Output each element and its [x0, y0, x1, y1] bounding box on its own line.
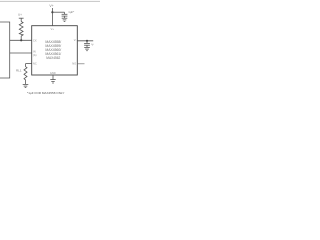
svg-text:NC: NC	[33, 62, 37, 66]
svg-text:V-: V-	[74, 38, 77, 42]
svg-text:*1µF FOR MAX4558 ONLY: *1µF FOR MAX4558 ONLY	[27, 91, 65, 95]
svg-text:RL1: RL1	[16, 68, 22, 72]
svg-text:1µF*: 1µF*	[68, 10, 75, 14]
svg-text:MAX4562: MAX4562	[46, 56, 60, 60]
svg-text:CX: CX	[33, 39, 37, 43]
svg-text:V-: V-	[91, 43, 94, 47]
svg-text:V+: V+	[49, 4, 53, 8]
svg-text:(A): (A)	[33, 53, 37, 57]
svg-text:V+: V+	[18, 13, 22, 17]
svg-text:GND: GND	[50, 71, 56, 75]
svg-text:V+: V+	[51, 27, 55, 31]
svg-text:NO: NO	[72, 61, 76, 65]
